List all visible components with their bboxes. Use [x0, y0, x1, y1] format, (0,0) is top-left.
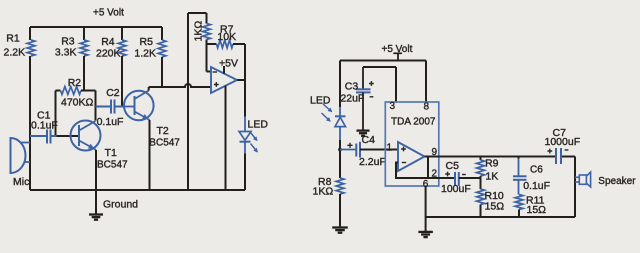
svg-text:R2: R2 — [68, 77, 82, 89]
svg-text:LED: LED — [248, 119, 269, 131]
svg-text:R3: R3 — [61, 35, 75, 47]
svg-text:1: 1 — [387, 142, 393, 153]
svg-text:1.2K: 1.2K — [134, 47, 156, 59]
svg-text:R5: R5 — [140, 36, 154, 48]
svg-text:+5V: +5V — [219, 58, 238, 70]
svg-text:470KΩ: 470KΩ — [61, 96, 94, 108]
svg-text:TDA 2007: TDA 2007 — [391, 117, 436, 128]
svg-text:Mic: Mic — [13, 176, 29, 188]
svg-text:Speaker: Speaker — [598, 176, 636, 187]
svg-text:3.3K: 3.3K — [55, 47, 77, 59]
svg-text:C6: C6 — [530, 165, 543, 176]
svg-text:Ground: Ground — [103, 199, 138, 211]
svg-text:1KΩ: 1KΩ — [193, 21, 205, 42]
svg-text:BC547: BC547 — [97, 160, 128, 171]
svg-text:BC547: BC547 — [149, 138, 180, 149]
svg-text:0.1uF: 0.1uF — [31, 119, 58, 131]
svg-text:2.2K: 2.2K — [4, 47, 26, 59]
svg-text:T1: T1 — [105, 147, 117, 159]
svg-text:C5: C5 — [446, 160, 460, 172]
svg-text:T2: T2 — [157, 125, 169, 137]
svg-text:C3: C3 — [345, 80, 359, 92]
svg-text:15Ω: 15Ω — [527, 204, 547, 216]
svg-text:1K: 1K — [485, 171, 498, 183]
svg-text:8: 8 — [424, 101, 430, 112]
svg-text:10K: 10K — [217, 31, 236, 43]
svg-text:LED: LED — [310, 95, 331, 107]
svg-text:0.1uF: 0.1uF — [523, 180, 550, 192]
svg-text:R9: R9 — [485, 158, 499, 170]
svg-text:+5 Volt: +5 Volt — [382, 44, 413, 55]
svg-text:R4: R4 — [101, 36, 115, 48]
svg-text:1000uF: 1000uF — [545, 136, 581, 148]
svg-text:220K: 220K — [96, 47, 121, 59]
svg-text:2.2uF: 2.2uF — [359, 156, 386, 168]
svg-text:R1: R1 — [6, 33, 20, 45]
svg-text:3: 3 — [390, 101, 396, 112]
svg-text:+5 Volt: +5 Volt — [93, 8, 124, 19]
svg-text:C2: C2 — [106, 87, 120, 99]
svg-text:0.1uF: 0.1uF — [97, 116, 124, 128]
svg-text:22uF: 22uF — [340, 93, 364, 105]
svg-text:1KΩ: 1KΩ — [313, 186, 334, 198]
svg-text:15Ω: 15Ω — [485, 201, 505, 213]
svg-text:100uF: 100uF — [441, 183, 471, 195]
